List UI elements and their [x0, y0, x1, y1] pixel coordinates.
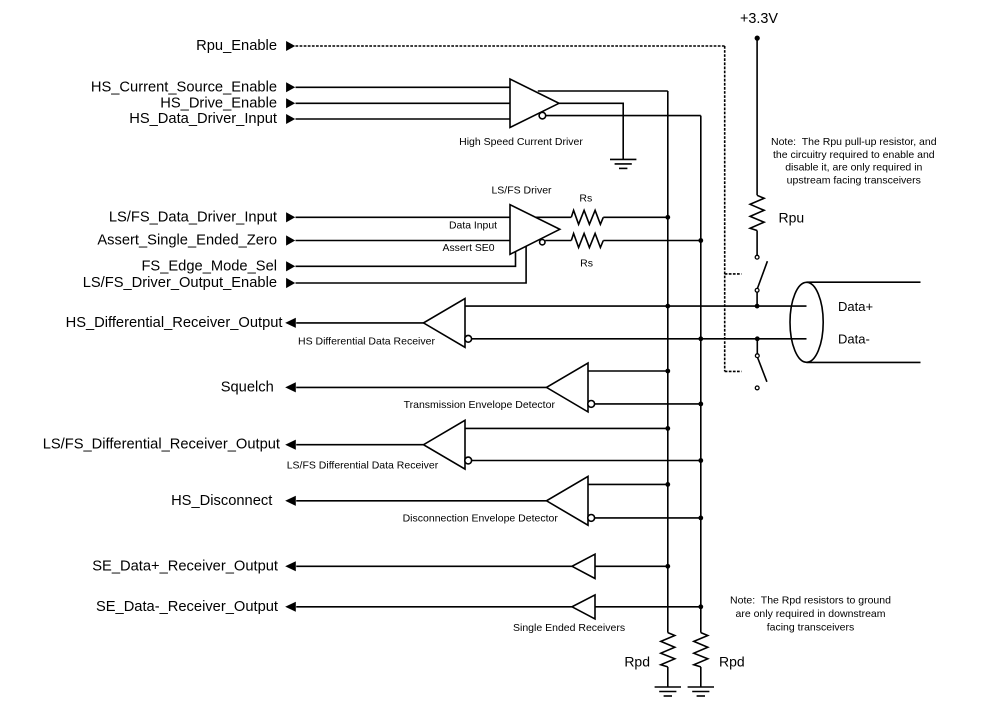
wire Assert_Single_Ended_Zero: [296, 240, 511, 242]
wire HS_Disconnect output: [296, 500, 546, 502]
svg-text:LS/FS_Data_Driver_Input: LS/FS_Data_Driver_Input: [109, 209, 277, 225]
bubble U1 inverting output: [539, 112, 546, 119]
resistor Rpd2: [694, 633, 708, 667]
ground under U1: [610, 158, 636, 160]
op-amp U3 HS Differential Data Receiver: [424, 299, 466, 348]
wire Data- line to switch SW2: [756, 339, 758, 354]
wire U7 input from Data+ bus: [595, 565, 668, 567]
wire SW1 to Data+ line: [756, 292, 758, 306]
wire HS_Current_Source_Enable: [296, 86, 511, 88]
svg-text:Assert SE0: Assert SE0: [443, 243, 495, 254]
svg-text:facing transceivers: facing transceivers: [767, 621, 855, 633]
junction U6/Data+ bus: [665, 482, 670, 487]
junction U4/Data- bus: [698, 402, 703, 407]
svg-text:HS_Data_Driver_Input: HS_Data_Driver_Input: [129, 111, 277, 127]
wire Rpu to switch SW1: [756, 231, 758, 256]
svg-text:Rpu_Enable: Rpu_Enable: [196, 38, 277, 54]
svg-text:HS_Differential_Receiver_Outpu: HS_Differential_Receiver_Output: [66, 315, 283, 331]
wire cable bottom: [807, 361, 921, 363]
wire SE_Data- output: [296, 606, 572, 608]
svg-text:LS/FS_Driver_Output_Enable: LS/FS_Driver_Output_Enable: [83, 275, 277, 291]
wire SE_Data+ output: [296, 565, 572, 567]
switch SW2 arm: [758, 358, 767, 382]
svg-text:upstream facing transceivers: upstream facing transceivers: [787, 175, 921, 187]
bubble U5 inverting input: [465, 457, 472, 464]
junction SW2/Data- line: [755, 336, 760, 341]
wire dashed stub to switch SW2: [725, 370, 742, 372]
svg-text:SE_Data+_Receiver_Output: SE_Data+_Receiver_Output: [92, 558, 278, 574]
svg-text:SE_Data-_Receiver_Output: SE_Data-_Receiver_Output: [96, 599, 278, 615]
wire HS_Data_Driver_Input: [296, 118, 511, 120]
wire U6 input from Data+ bus: [588, 483, 668, 485]
wire U5 output: [296, 444, 423, 446]
wire +3.3V to Rpu: [756, 38, 758, 195]
svg-text:Data Input: Data Input: [449, 220, 497, 231]
svg-text:Rs: Rs: [580, 257, 593, 269]
svg-text:Assert_Single_Ended_Zero: Assert_Single_Ended_Zero: [97, 233, 277, 249]
op-amp U6 Disconnection Envelope Detector: [547, 476, 589, 525]
svg-text:Rpu: Rpu: [779, 209, 805, 225]
op-amp U1 High Speed Current Driver: [510, 79, 559, 128]
wire U5 input from Data+ bus: [465, 427, 668, 429]
op-amp U8 single ended receiver Data-: [572, 595, 595, 619]
wire dashed stub to switch SW1: [725, 273, 742, 275]
cable ellipse: [790, 282, 823, 362]
wire Rpu_Enable dashed net: [296, 45, 725, 47]
wire Rs2 to Data- bus: [603, 240, 701, 242]
svg-text:Rs: Rs: [579, 193, 592, 205]
bubble U4 inverting input: [588, 401, 595, 408]
wire Rpd2 to ground: [700, 667, 702, 687]
svg-text:Transmission Envelope Detector: Transmission Envelope Detector: [404, 399, 556, 411]
wire U1 apex output to ground: [559, 103, 623, 159]
svg-text:LS/FS Differential Data Receiv: LS/FS Differential Data Receiver: [287, 460, 439, 472]
wire U4 input from Data+ bus: [588, 370, 668, 372]
resistor Rs2: [571, 234, 603, 248]
bubble U3 inverting input: [465, 335, 472, 342]
wire U6 input from Data- bus: [595, 517, 701, 519]
svg-text:HS_Drive_Enable: HS_Drive_Enable: [160, 95, 277, 111]
svg-text:Single Ended Receivers: Single Ended Receivers: [513, 622, 625, 634]
wire FS_Edge_Mode_Sel: [296, 251, 516, 266]
junction U5/Data+ bus: [665, 426, 670, 431]
resistor Rpd1: [661, 633, 675, 667]
svg-text:Disconnection Envelope Detecto: Disconnection Envelope Detector: [403, 513, 559, 525]
op-amp U4 Transmission Envelope Detector: [547, 363, 589, 412]
switch SW1 top contact: [755, 255, 759, 259]
op-amp U2 LS/FS Driver: [510, 205, 560, 255]
svg-text:LS/FS_Differential_Receiver_Ou: LS/FS_Differential_Receiver_Output: [43, 437, 280, 453]
wire U8 input from Data- bus: [595, 606, 701, 608]
switch SW2 top contact: [755, 354, 759, 358]
junction U8/Data- bus: [698, 604, 703, 609]
svg-text:disable it, are only required: disable it, are only required in: [785, 162, 922, 174]
wire cable top: [807, 281, 921, 283]
resistor Rpu: [750, 195, 764, 230]
wire Data- vertical bus: [700, 116, 702, 633]
wire LS/FS_Driver_Output_Enable: [296, 246, 527, 283]
resistor Rs1: [571, 210, 603, 224]
svg-text:Rpd: Rpd: [624, 654, 650, 670]
switch SW1 bottom contact: [755, 288, 759, 292]
wire dashed vertical Rpu_Enable: [724, 46, 726, 371]
junction U7/Data+ bus: [665, 564, 670, 569]
wire Rpd1 to ground: [667, 667, 669, 687]
wire Data+ line to cable: [465, 305, 807, 307]
wire HS_Drive_Enable: [296, 102, 511, 104]
switch SW1 arm: [757, 261, 767, 288]
svg-text:Data+: Data+: [838, 299, 873, 314]
junction SW1/Data+ line: [755, 304, 760, 309]
junction +3.3V terminal: [755, 36, 760, 41]
wire U4 input from Data- bus: [595, 403, 701, 405]
wire Data+ vertical bus: [667, 91, 669, 633]
wire Data- line to cable: [472, 338, 807, 340]
bubble U6 inverting input: [588, 515, 595, 522]
svg-text:FS_Edge_Mode_Sel: FS_Edge_Mode_Sel: [141, 258, 277, 274]
junction U5/Data- bus: [698, 458, 703, 463]
junction Data+ bus: [665, 304, 670, 309]
wire U2 output to Rs1: [536, 216, 572, 218]
junction Rs2/Data- bus: [698, 238, 703, 243]
wire U1 top output to Data+ bus: [538, 90, 668, 92]
switch SW2 bottom contact: [755, 386, 759, 390]
wire U5 input from Data- bus: [472, 460, 701, 462]
svg-text:HS Differential Data Receiver: HS Differential Data Receiver: [298, 335, 435, 347]
junction Rs1/Data+ bus: [665, 215, 670, 220]
ground under Rpd2: [688, 686, 714, 688]
svg-text:Rpd: Rpd: [719, 654, 745, 670]
bubble U2 inverting output: [540, 240, 545, 245]
svg-text:Note: The Rpu pull-up resisto: Note: The Rpu pull-up resistor, and: [771, 136, 937, 148]
junction U6/Data- bus: [698, 516, 703, 521]
svg-text:Data-: Data-: [838, 332, 870, 347]
op-amp U7 single ended receiver Data+: [572, 554, 595, 578]
svg-text:+3.3V: +3.3V: [740, 11, 778, 27]
svg-text:Note: The Rpd resistors to gr: Note: The Rpd resistors to ground: [730, 595, 891, 607]
svg-text:HS_Current_Source_Enable: HS_Current_Source_Enable: [91, 79, 277, 95]
svg-text:HS_Disconnect: HS_Disconnect: [171, 493, 272, 509]
junction U4/Data+ bus: [665, 369, 670, 374]
wire U3 output: [296, 322, 423, 324]
wire U1 inverted output to Data- bus: [546, 115, 701, 117]
op-amp U5 LS/FS Differential Data Receiver: [424, 420, 466, 469]
junction Data- bus: [698, 336, 703, 341]
svg-text:High Speed Current Driver: High Speed Current Driver: [459, 136, 583, 148]
svg-text:the circuitry required to enab: the circuitry required to enable and: [773, 149, 935, 161]
wire Squelch output: [296, 386, 546, 388]
wire LS/FS_Data_Driver_Input: [296, 216, 511, 218]
svg-text:LS/FS Driver: LS/FS Driver: [491, 185, 552, 197]
svg-text:are only required in downstrea: are only required in downstream: [736, 608, 886, 620]
wire Rs1 to Data+ bus: [603, 216, 668, 218]
ground under Rpd1: [655, 686, 681, 688]
wire U2 bubble to Rs2: [545, 240, 571, 242]
svg-text:Squelch: Squelch: [221, 379, 274, 395]
